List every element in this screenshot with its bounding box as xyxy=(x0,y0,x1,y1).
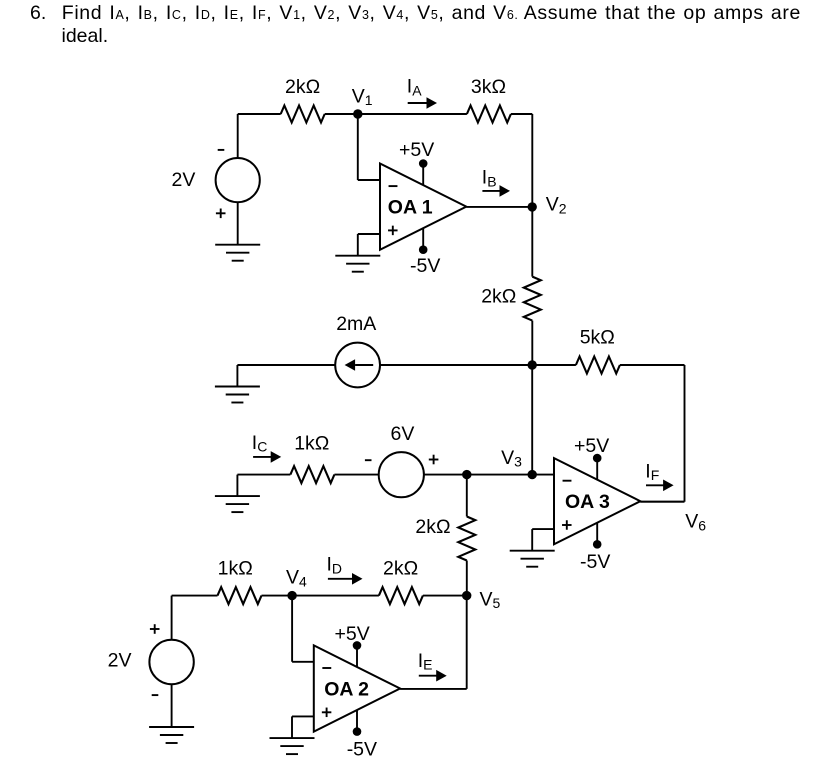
svg-text:2V: 2V xyxy=(108,650,132,672)
svg-text:2V: 2V xyxy=(172,169,196,191)
svg-text:-5V: -5V xyxy=(347,738,377,760)
svg-text:IB: IB xyxy=(482,167,497,190)
svg-text:IF: IF xyxy=(645,460,659,483)
svg-text:5kΩ: 5kΩ xyxy=(580,327,615,349)
svg-text:V2: V2 xyxy=(546,194,567,217)
svg-text:+5V: +5V xyxy=(335,623,370,645)
svg-text:OA 1: OA 1 xyxy=(388,197,433,219)
svg-text:2kΩ: 2kΩ xyxy=(481,286,516,308)
svg-text:-5V: -5V xyxy=(580,551,610,573)
svg-text:3kΩ: 3kΩ xyxy=(471,76,506,98)
svg-text:-5V: -5V xyxy=(410,255,440,277)
svg-text:1kΩ: 1kΩ xyxy=(218,558,253,580)
svg-text:V4: V4 xyxy=(286,567,307,590)
svg-text:+5V: +5V xyxy=(399,139,434,161)
svg-text:2mA: 2mA xyxy=(336,313,376,335)
svg-text:IE: IE xyxy=(418,650,433,673)
svg-text:OA 2: OA 2 xyxy=(324,679,369,701)
svg-text:2kΩ: 2kΩ xyxy=(383,558,418,580)
svg-text:V3: V3 xyxy=(501,447,522,470)
svg-text:V6: V6 xyxy=(685,511,706,534)
svg-text:6V: 6V xyxy=(391,423,415,445)
svg-text:IC: IC xyxy=(252,432,268,455)
svg-text:ID: ID xyxy=(327,554,343,577)
svg-text:V5: V5 xyxy=(480,588,501,611)
svg-text:IA: IA xyxy=(407,76,422,99)
svg-text:1kΩ: 1kΩ xyxy=(294,433,329,455)
svg-text:2kΩ: 2kΩ xyxy=(285,76,320,98)
svg-text:OA 3: OA 3 xyxy=(565,491,610,513)
svg-text:V1: V1 xyxy=(352,85,373,108)
svg-text:+5V: +5V xyxy=(574,435,609,457)
svg-text:2kΩ: 2kΩ xyxy=(415,516,450,538)
